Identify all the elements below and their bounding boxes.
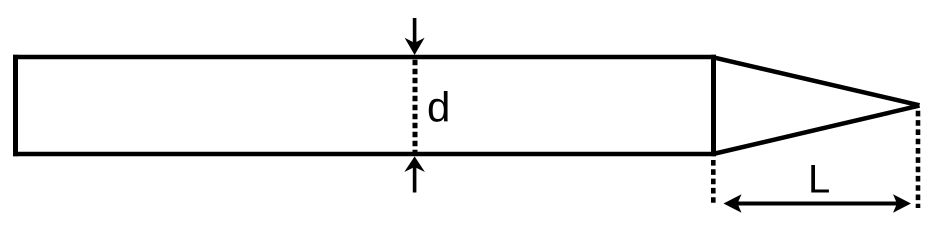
dashed diameter line [413,60,418,152]
svg-text:L: L [808,158,830,202]
svg-text:d: d [427,84,450,131]
rod body rectangle right edge [711,55,716,156]
cone tip bottom line [713,106,920,154]
arrow d top shaft [413,18,417,45]
dashed extension line right [916,111,921,208]
arrow d top head [405,38,425,55]
L dimension left head [724,194,742,212]
cone tip top line [713,57,920,105]
rod body rectangle bottom edge [13,152,716,156]
L dimension shaft [737,202,898,206]
rod body rectangle left edge [13,55,18,156]
rod body rectangle top edge [13,55,716,59]
L dimension right head [893,194,911,212]
dashed extension line left [711,160,716,204]
arrow d bottom head [404,156,425,172]
arrow d bottom shaft [413,167,417,193]
